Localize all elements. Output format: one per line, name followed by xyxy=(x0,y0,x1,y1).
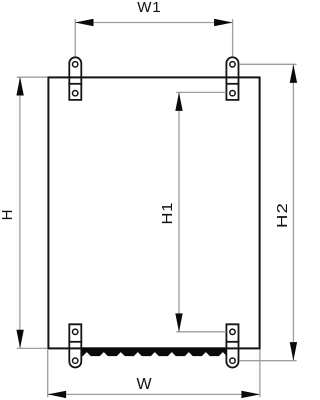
svg-text:W1: W1 xyxy=(137,0,161,16)
svg-text:H1: H1 xyxy=(159,202,175,225)
svg-text:H2: H2 xyxy=(274,202,291,228)
svg-text:W: W xyxy=(137,376,153,393)
svg-text:H: H xyxy=(0,209,16,221)
